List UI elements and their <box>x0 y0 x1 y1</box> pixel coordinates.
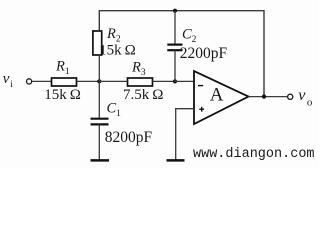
op-amp minus sign <box>198 85 203 87</box>
op-amp A triangle <box>194 71 249 124</box>
wire R3 to node B <box>153 80 176 82</box>
svg-text:www.diangon.com: www.diangon.com <box>193 147 315 162</box>
node vo terminal <box>288 94 293 99</box>
svg-text:15k Ω: 15k Ω <box>44 87 81 103</box>
resistor R3 <box>128 78 153 86</box>
wire C2 to node B <box>174 50 176 81</box>
node A junction <box>97 79 101 83</box>
wire node B to op-amp inverting input <box>175 80 194 82</box>
wire non-inverting input <box>176 109 194 160</box>
wire vi to R1 <box>32 80 51 82</box>
node output junction <box>262 95 266 99</box>
ground bar (C1) <box>91 159 110 162</box>
svg-text:2200pF: 2200pF <box>180 45 228 62</box>
node top junction (C2 tap) <box>173 9 177 13</box>
wire R2 bottom to node A <box>98 55 100 81</box>
top feedback wire <box>99 11 264 97</box>
svg-text:7.5k Ω: 7.5k Ω <box>123 87 163 103</box>
wire top to C2 <box>174 11 176 44</box>
op-amp plus sign <box>199 108 204 110</box>
node vi terminal <box>27 79 32 84</box>
wire node A to C1 <box>98 81 100 118</box>
wire R1 to node A <box>77 80 100 82</box>
node B junction <box>173 79 177 83</box>
svg-text:8200pF: 8200pF <box>105 129 153 146</box>
capacitor C1 <box>91 118 109 120</box>
wire op-amp output <box>249 96 288 98</box>
resistor R1 <box>52 78 77 86</box>
ground bar (op-amp +) <box>167 159 185 162</box>
wire C1 to ground bar <box>98 124 100 160</box>
wire node A to R3 <box>99 80 127 82</box>
svg-text:15k Ω: 15k Ω <box>99 43 136 59</box>
capacitor C2 <box>167 43 182 45</box>
resistor R2 (vertical) <box>93 31 102 55</box>
svg-text:A: A <box>210 84 224 105</box>
